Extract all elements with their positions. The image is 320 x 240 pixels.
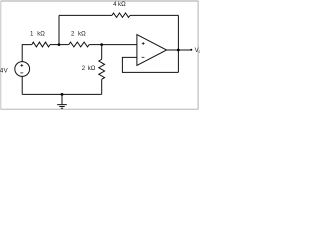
figure border frame — [1, 0, 199, 2]
wire: minus input feedback loop — [122, 57, 178, 72]
svg-text:Vo: Vo — [195, 47, 200, 54]
ground symbol — [57, 94, 67, 108]
output node junction dot — [177, 49, 180, 52]
svg-text:1: 1 — [30, 31, 34, 38]
wire: 1k to node A — [50, 44, 59, 46]
wire: vertical resistor bottom to rail — [101, 79, 103, 94]
node A junction dot — [58, 43, 61, 46]
wire: node A up to top branch — [58, 15, 60, 44]
wire: node B to op-amp plus input — [102, 44, 137, 46]
svg-text:kΩ: kΩ — [37, 31, 45, 38]
wire: source top to 1k — [22, 45, 32, 62]
wire: bottom rail — [22, 93, 102, 95]
op-amp U1 triangle — [137, 35, 167, 66]
wire: right vertical down to feedback bottom — [177, 15, 179, 72]
wire: top branch right segment — [130, 14, 178, 16]
wire: 2k to node B — [89, 44, 102, 46]
svg-text:kΩ: kΩ — [78, 31, 86, 38]
svg-text:2: 2 — [82, 65, 86, 72]
wire: node B down to vertical resistor — [101, 45, 103, 60]
svg-text:4: 4 — [113, 1, 117, 8]
resistor R1 1 kOhm — [32, 42, 50, 47]
plus sign in source — [20, 64, 23, 67]
wire: op-amp output — [167, 49, 191, 51]
resistor R4 2 kOhm vertical — [99, 59, 105, 79]
resistor R2 2 kOhm horizontal — [69, 42, 89, 47]
svg-text:V: V — [4, 67, 9, 74]
ground junction dot — [61, 93, 64, 96]
output terminal dot — [190, 49, 192, 51]
node B junction dot — [100, 43, 103, 46]
resistor R3 4 kOhm — [112, 13, 130, 17]
op-amp plus input marker — [142, 42, 145, 45]
wire: source bottom down — [21, 76, 23, 94]
wire: top branch left segment — [59, 14, 112, 16]
voltage source V1 4V circle — [15, 62, 30, 77]
svg-text:kΩ: kΩ — [88, 65, 96, 72]
minus sign in source — [20, 72, 23, 74]
svg-text:2: 2 — [71, 31, 75, 38]
wire: node A to 2k — [59, 44, 69, 46]
op-amp minus input marker — [142, 56, 145, 58]
svg-text:kΩ: kΩ — [118, 1, 126, 8]
